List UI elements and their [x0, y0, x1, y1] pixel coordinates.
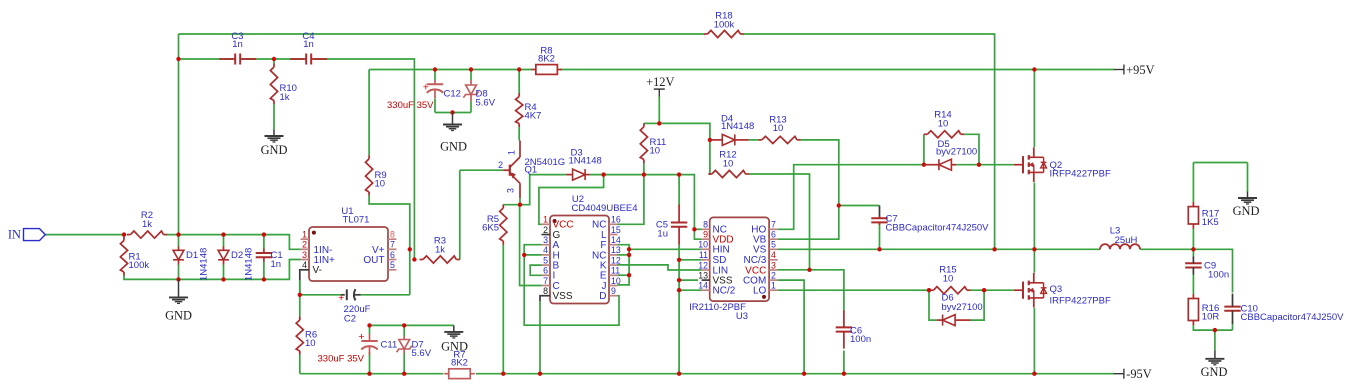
ground: [1201, 350, 1228, 379]
wire: [694, 228, 701, 230]
svg-text:1N4148: 1N4148: [199, 248, 210, 281]
svg-text:10: 10: [938, 118, 949, 129]
junction: [367, 323, 371, 327]
junction: [1032, 67, 1036, 71]
junction: [922, 163, 926, 167]
power +12V: [646, 75, 674, 97]
wire: [403, 325, 405, 336]
wire: [956, 164, 1014, 166]
junction: [122, 232, 126, 236]
junction: [677, 172, 681, 176]
svg-text:1n: 1n: [271, 259, 282, 270]
svg-text:HIN: HIN: [713, 245, 730, 256]
svg-text:+: +: [358, 331, 364, 343]
resistor R5: [482, 205, 507, 245]
hex buffer U2: [542, 194, 638, 303]
svg-text:13: 13: [611, 245, 621, 255]
wire: [1214, 330, 1216, 350]
wire: [618, 254, 630, 256]
junction: [677, 372, 681, 376]
svg-text:10: 10: [375, 179, 386, 190]
junction: [221, 232, 225, 236]
wire: [1140, 249, 1233, 292]
junction: [802, 372, 806, 376]
svg-text:2: 2: [543, 225, 548, 235]
wire: [502, 204, 504, 206]
wire: [178, 265, 180, 280]
wire: [540, 296, 542, 301]
junction: [977, 163, 981, 167]
wire: [519, 198, 521, 205]
wire: [299, 295, 301, 317]
svg-text:3: 3: [771, 260, 776, 270]
wire: [1192, 228, 1194, 249]
wire: [1033, 249, 1035, 272]
svg-text:3: 3: [543, 235, 548, 245]
svg-text:1k: 1k: [435, 244, 445, 255]
wire: [470, 102, 472, 113]
svg-text:1N4148: 1N4148: [244, 248, 255, 281]
svg-text:3: 3: [302, 250, 307, 260]
svg-text:Q3: Q3: [1050, 284, 1063, 295]
wire: [223, 235, 225, 247]
resistor R7: [444, 350, 475, 379]
svg-text:GND: GND: [1201, 365, 1228, 379]
svg-text:IRFP4227PBF: IRFP4227PBF: [1050, 295, 1111, 306]
wire: [45, 234, 124, 236]
wire: [369, 69, 531, 71]
svg-text:5.6V: 5.6V: [476, 98, 496, 109]
junction: [522, 253, 526, 257]
wire: [524, 254, 541, 256]
wire: [178, 34, 180, 235]
svg-text:10R: 10R: [1202, 312, 1220, 323]
svg-text:10: 10: [943, 273, 954, 284]
wire: [970, 289, 1014, 291]
wire: [524, 245, 619, 326]
junction: [627, 247, 631, 251]
wire: [539, 301, 541, 374]
junction: [627, 253, 631, 257]
resistor R6: [296, 317, 317, 355]
junction: [708, 138, 712, 142]
svg-text:16: 16: [611, 215, 621, 225]
svg-text:1: 1: [543, 215, 548, 225]
wire: [263, 235, 265, 249]
junction: [837, 203, 841, 207]
diode D3: [566, 148, 602, 181]
svg-text:330uF 35V: 330uF 35V: [387, 100, 434, 111]
svg-text:100n: 100n: [1208, 269, 1229, 280]
svg-text:1N4148: 1N4148: [721, 121, 754, 132]
wire: [299, 280, 301, 295]
junction: [992, 247, 996, 251]
wire: [929, 290, 937, 320]
wire: [778, 248, 1100, 250]
junction: [627, 273, 631, 277]
wire: [694, 229, 701, 239]
wire: [749, 174, 810, 270]
capacitor C4: [290, 31, 327, 64]
svg-text:C2: C2: [344, 314, 356, 325]
svg-text:11: 11: [611, 266, 620, 276]
svg-text:12: 12: [698, 260, 708, 270]
wire: [778, 206, 839, 240]
junction: [408, 247, 412, 251]
svg-text:10: 10: [305, 338, 316, 349]
capacitor C11: [318, 331, 398, 364]
diode D6: [937, 292, 983, 325]
wire: [178, 235, 180, 247]
ground: [165, 279, 192, 322]
svg-text:10: 10: [773, 123, 784, 134]
svg-text:U3: U3: [736, 311, 748, 322]
svg-text:GND: GND: [1233, 204, 1260, 218]
junction: [1032, 372, 1036, 376]
junction: [1213, 328, 1217, 332]
wire: [679, 259, 702, 261]
wire: [679, 289, 702, 291]
wire: [839, 205, 880, 207]
svg-text:14: 14: [698, 281, 708, 291]
junction: [262, 277, 266, 281]
junction: [469, 67, 473, 71]
svg-text:6: 6: [771, 230, 776, 240]
wire: [503, 175, 566, 205]
svg-text:4K7: 4K7: [525, 111, 542, 122]
resistor R3: [420, 236, 460, 263]
junction: [402, 372, 406, 376]
wire: [778, 280, 805, 374]
svg-text:+95V: +95V: [1126, 63, 1154, 77]
junction: [262, 232, 266, 236]
wire: [778, 269, 810, 271]
svg-text:6: 6: [390, 250, 395, 260]
svg-text:4: 4: [771, 250, 776, 260]
wire: [361, 294, 410, 296]
wire: [1247, 163, 1249, 192]
junction: [176, 277, 180, 281]
inductor L3: [1100, 226, 1140, 250]
resistor R15: [930, 265, 970, 294]
svg-text:-95V: -95V: [1126, 367, 1152, 381]
wire: [1192, 163, 1194, 203]
resistor R2: [127, 210, 167, 238]
wire: [434, 99, 436, 113]
svg-text:1u: 1u: [657, 228, 668, 239]
power -95V: [1114, 367, 1152, 381]
svg-text:5.6V: 5.6V: [412, 348, 432, 359]
wire: [124, 260, 301, 280]
wire: [971, 290, 985, 320]
junction: [657, 121, 661, 125]
capacitor C9: [1185, 256, 1229, 280]
wire: [618, 245, 630, 285]
svg-text:CD4049UBEE4: CD4049UBEE4: [571, 203, 637, 214]
capacitor C1: [256, 249, 283, 270]
svg-text:9: 9: [703, 230, 708, 240]
resistor R11: [640, 123, 666, 163]
zener diode D7: [397, 337, 432, 359]
svg-text:VSS: VSS: [553, 291, 573, 302]
wire: [560, 69, 1114, 71]
junction: [538, 372, 542, 376]
junction: [221, 277, 225, 281]
svg-text:Q1: Q1: [525, 165, 538, 176]
wire: [678, 245, 680, 374]
svg-text:100n: 100n: [850, 334, 871, 345]
wire: [1192, 274, 1194, 294]
wire: [964, 134, 979, 164]
wire: [403, 353, 405, 374]
junction: [517, 67, 521, 71]
svg-text:8: 8: [703, 220, 708, 230]
svg-text:15: 15: [611, 225, 621, 235]
wire: [369, 196, 410, 295]
svg-text:+12V: +12V: [646, 75, 674, 89]
junction: [367, 372, 371, 376]
junction: [298, 293, 302, 297]
zener diode D8: [463, 80, 495, 109]
wire: [843, 351, 845, 374]
capacitor C7: [871, 214, 989, 234]
wire: [179, 58, 234, 60]
svg-text:GND: GND: [165, 309, 192, 323]
svg-text:7: 7: [543, 276, 548, 286]
junction: [176, 57, 180, 61]
svg-text:C11: C11: [381, 340, 398, 351]
wire: [643, 163, 645, 175]
ground: [440, 113, 467, 154]
svg-text:3: 3: [506, 188, 516, 193]
wire: [518, 70, 520, 94]
svg-text:14: 14: [611, 235, 621, 245]
junction: [807, 268, 811, 272]
svg-text:7: 7: [390, 240, 395, 250]
wire: [658, 97, 660, 124]
wire: [679, 279, 698, 281]
wire: [629, 248, 702, 250]
wire: [644, 122, 659, 124]
svg-text:GND: GND: [441, 340, 468, 354]
resistor R18: [704, 11, 744, 38]
svg-text:2: 2: [771, 270, 776, 280]
svg-text:VS: VS: [753, 245, 767, 256]
svg-text:1K5: 1K5: [1202, 217, 1219, 228]
svg-text:5: 5: [543, 255, 548, 265]
svg-text:byv27100: byv27100: [936, 146, 977, 157]
power +95V: [1114, 63, 1155, 77]
svg-text:GND: GND: [440, 140, 467, 154]
ground: [441, 325, 468, 353]
svg-text:5: 5: [390, 260, 395, 270]
junction: [601, 172, 605, 176]
wire: [618, 274, 630, 276]
input connector IN: [8, 228, 45, 242]
svg-text:5: 5: [771, 240, 776, 250]
wire: [502, 245, 504, 374]
wire: [879, 222, 881, 249]
resistor R17: [1188, 202, 1219, 228]
wire: [590, 175, 695, 230]
wire: [459, 170, 461, 259]
wire: [223, 265, 225, 280]
svg-text:OUT: OUT: [363, 255, 384, 266]
resistor R10: [270, 64, 297, 105]
svg-text:GND: GND: [261, 143, 288, 157]
svg-text:TL071: TL071: [343, 215, 370, 226]
svg-text:+: +: [338, 292, 344, 304]
svg-text:6: 6: [543, 266, 548, 276]
junction: [642, 172, 646, 176]
wire: [530, 265, 541, 275]
wire: [470, 70, 472, 81]
junction: [450, 110, 454, 114]
svg-text:10: 10: [698, 240, 708, 250]
wire: [518, 127, 520, 141]
wire: [263, 262, 265, 280]
svg-text:D: D: [599, 291, 606, 302]
junction: [501, 372, 505, 376]
wire: [659, 123, 710, 174]
resistor R9: [366, 155, 387, 195]
wire: [778, 165, 924, 230]
wire: [1033, 70, 1035, 148]
diode D4: [710, 114, 754, 146]
svg-text:8K2: 8K2: [538, 53, 555, 64]
diode D2: [218, 247, 254, 282]
wire: [879, 206, 881, 219]
junction: [692, 227, 696, 231]
svg-text:6K5: 6K5: [482, 223, 499, 234]
mosfet Q3: [1014, 273, 1111, 308]
svg-text:1: 1: [507, 150, 517, 155]
junction: [677, 288, 681, 292]
wire: [618, 265, 702, 270]
wire: [300, 294, 342, 296]
svg-text:1N4148: 1N4148: [569, 155, 602, 166]
svg-text:D2: D2: [231, 250, 243, 261]
svg-text:LO: LO: [753, 286, 767, 297]
junction: [176, 232, 180, 236]
wire: [123, 235, 125, 238]
wire: [273, 104, 275, 130]
resistor R1: [120, 237, 149, 276]
wire: [678, 175, 680, 206]
capacitor C3: [219, 31, 256, 64]
svg-text:100k: 100k: [714, 19, 735, 30]
svg-text:1k: 1k: [280, 92, 290, 103]
gate driver U3: [689, 217, 778, 322]
wire: [810, 270, 844, 311]
wire: [520, 205, 542, 286]
svg-text:C12: C12: [444, 89, 461, 100]
wire: [179, 33, 705, 35]
capacitor C2: [338, 289, 371, 324]
svg-text:11: 11: [699, 250, 708, 260]
diode D1: [173, 247, 209, 282]
wire: [923, 134, 925, 164]
svg-text:CBBCapacitor474J250V: CBBCapacitor474J250V: [886, 222, 990, 233]
junction: [412, 257, 416, 261]
svg-text:4: 4: [543, 245, 548, 255]
svg-text:10: 10: [723, 158, 734, 169]
wire: [778, 289, 929, 291]
svg-text:8: 8: [390, 230, 395, 240]
svg-text:+: +: [423, 82, 429, 94]
wire: [435, 112, 471, 114]
wire: [273, 59, 275, 64]
junction: [677, 278, 681, 282]
resistor R13: [758, 115, 800, 144]
wire: [801, 140, 839, 206]
wire: [1193, 325, 1232, 330]
svg-text:330uF 35V: 330uF 35V: [318, 353, 365, 364]
svg-text:2: 2: [302, 240, 307, 250]
junction: [877, 247, 881, 251]
wire: [167, 235, 301, 250]
svg-text:1: 1: [302, 230, 307, 240]
svg-text:9: 9: [611, 286, 616, 296]
resistor R12: [708, 150, 749, 178]
ground: [261, 130, 288, 158]
junction: [842, 372, 846, 376]
wire: [242, 58, 304, 60]
svg-text:1n: 1n: [232, 39, 243, 50]
svg-text:IN: IN: [8, 228, 21, 242]
wire: [749, 139, 759, 141]
svg-text:8: 8: [543, 286, 548, 296]
wire: [370, 324, 454, 326]
svg-text:1n: 1n: [303, 39, 314, 50]
resistor R4: [516, 93, 542, 127]
wire: [539, 175, 604, 225]
resistor R14: [924, 110, 964, 138]
junction: [433, 67, 437, 71]
wire: [1192, 249, 1194, 256]
svg-text:2: 2: [498, 160, 503, 170]
wire: [300, 270, 301, 295]
transistor Q1: [498, 141, 565, 199]
capacitor C5: [656, 205, 687, 245]
capacitor C10: [1224, 294, 1344, 324]
svg-text:100k: 100k: [129, 260, 150, 271]
junction: [1191, 247, 1195, 251]
junction: [402, 323, 406, 327]
svg-text:1: 1: [771, 281, 776, 291]
ground: [1233, 192, 1260, 219]
wire: [1193, 162, 1247, 164]
svg-text:D1: D1: [186, 250, 198, 261]
svg-text:CBBCapacitor474J250V: CBBCapacitor474J250V: [1241, 312, 1345, 323]
svg-text:10: 10: [650, 146, 661, 157]
junction: [1032, 247, 1036, 251]
svg-text:IRFP4227PBF: IRFP4227PBF: [1050, 168, 1111, 179]
svg-text:1k: 1k: [142, 219, 152, 230]
wire: [1232, 322, 1234, 331]
wire: [299, 355, 301, 374]
wire: [369, 325, 371, 334]
wire: [1033, 308, 1035, 374]
junction: [677, 258, 681, 262]
svg-text:12: 12: [611, 255, 621, 265]
wire: [618, 175, 644, 225]
wire: [434, 70, 436, 81]
mosfet Q2: [1014, 147, 1111, 182]
svg-text:7: 7: [771, 220, 776, 230]
capacitor C6: [836, 310, 871, 348]
svg-text:byv27100: byv27100: [942, 302, 983, 313]
